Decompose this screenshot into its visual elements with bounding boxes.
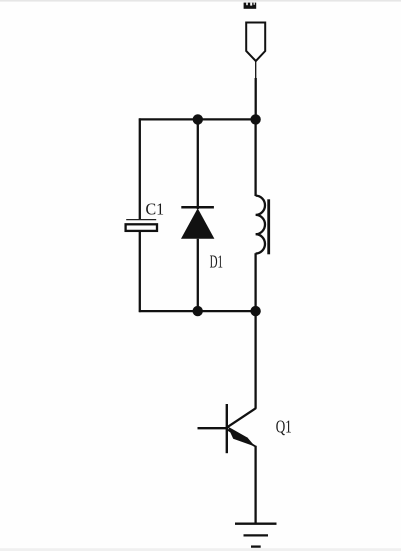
svg-text:D1: D1 — [210, 253, 223, 272]
svg-text:C1: C1 — [146, 199, 165, 219]
svg-text:Q1: Q1 — [276, 418, 292, 437]
